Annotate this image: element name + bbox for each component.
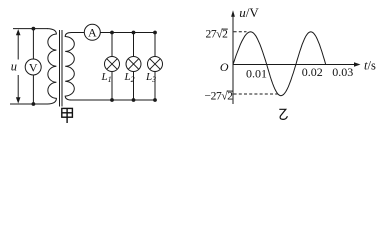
wire lamp2 upper xyxy=(133,33,135,57)
svg-text:L2: L2 xyxy=(124,71,135,84)
lamp L3 xyxy=(148,57,163,72)
svg-text:V: V xyxy=(29,60,38,74)
ammeter A xyxy=(84,24,100,40)
source u arrow line xyxy=(16,29,21,103)
wire lamp1 lower xyxy=(111,72,113,101)
wire lamp2 lower xyxy=(133,72,135,101)
dashed line peak xyxy=(234,31,247,33)
svg-text:O: O xyxy=(220,60,229,74)
svg-text:L3: L3 xyxy=(145,71,156,84)
sine curve u(t) xyxy=(233,32,326,96)
node secondary top 2 xyxy=(132,31,136,35)
node bottom junction xyxy=(32,102,36,106)
node secondary top 1 xyxy=(110,31,114,35)
node secondary bottom 1 xyxy=(110,98,114,102)
svg-text:L1: L1 xyxy=(101,71,112,84)
transformer secondary coil xyxy=(65,33,84,101)
node secondary bottom 2 xyxy=(132,98,136,102)
x axis xyxy=(233,62,361,66)
lamp L1 xyxy=(105,57,120,72)
node secondary top 3 xyxy=(153,31,157,35)
label yi (Chinese) xyxy=(279,109,287,119)
wire top rail secondary xyxy=(100,32,155,34)
label 27sqrt2 xyxy=(206,28,229,41)
wire voltmeter branch top xyxy=(32,29,34,59)
wire top rail primary xyxy=(13,28,48,30)
voltmeter V xyxy=(25,59,41,75)
dashed line trough xyxy=(234,93,278,95)
lamp L2 xyxy=(126,57,141,72)
label jia (Chinese) xyxy=(62,108,73,123)
wire lamp1 upper xyxy=(111,33,113,57)
svg-text:0.03: 0.03 xyxy=(332,65,353,79)
node top junction xyxy=(32,27,36,31)
wire lamp3 upper xyxy=(154,33,156,57)
y axis xyxy=(231,10,235,104)
svg-text:A: A xyxy=(88,26,97,40)
svg-text:u/V: u/V xyxy=(239,5,259,20)
wire lamp3 lower xyxy=(154,72,156,101)
wire voltmeter branch bottom xyxy=(32,75,34,104)
wire bottom rail secondary xyxy=(74,99,155,101)
transformer primary coil xyxy=(48,29,57,104)
wire bottom rail primary xyxy=(10,103,48,105)
svg-text:t/s: t/s xyxy=(364,58,376,72)
transformer core xyxy=(60,30,63,107)
svg-text:0.01: 0.01 xyxy=(246,67,267,81)
label -27sqrt2 xyxy=(205,90,234,103)
svg-text:u: u xyxy=(11,60,17,74)
svg-text:0.02: 0.02 xyxy=(302,65,323,79)
node secondary bottom 3 xyxy=(153,98,157,102)
